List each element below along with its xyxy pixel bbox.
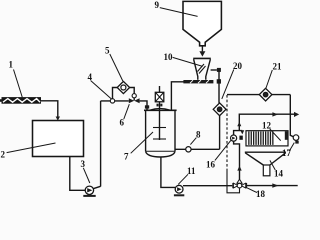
svg-text:16: 16: [206, 160, 216, 170]
svg-text:18: 18: [256, 189, 266, 199]
svg-text:1: 1: [9, 60, 14, 70]
svg-text:21: 21: [273, 62, 283, 72]
svg-text:3: 3: [81, 159, 86, 169]
svg-text:11: 11: [187, 166, 196, 176]
svg-text:2: 2: [1, 150, 6, 160]
svg-text:4: 4: [88, 72, 93, 82]
svg-text:12: 12: [262, 121, 272, 131]
svg-text:5: 5: [105, 46, 110, 56]
svg-text:17: 17: [282, 148, 292, 158]
svg-text:10: 10: [164, 52, 174, 62]
svg-text:8: 8: [196, 130, 201, 140]
svg-text:7: 7: [124, 152, 129, 162]
svg-text:14: 14: [274, 169, 284, 179]
svg-text:6: 6: [120, 118, 125, 128]
svg-text:9: 9: [155, 0, 160, 10]
svg-text:20: 20: [233, 61, 243, 71]
